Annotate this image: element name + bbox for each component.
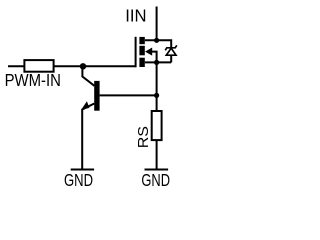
svg-text:IIN: IIN (125, 6, 146, 26)
svg-text:PWM-IN: PWM-IN (5, 70, 61, 90)
svg-text:GND: GND (141, 170, 170, 190)
svg-text:GND: GND (64, 170, 93, 190)
svg-text:RS: RS (136, 126, 152, 148)
